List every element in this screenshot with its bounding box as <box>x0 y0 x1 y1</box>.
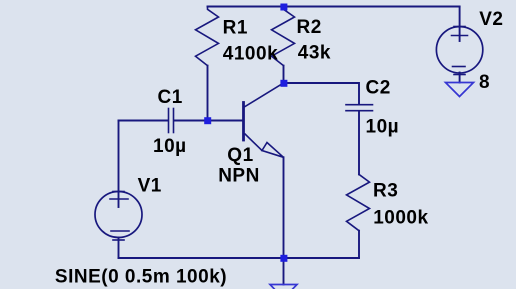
svg-text:V2: V2 <box>479 9 503 30</box>
wire base node right <box>175 120 243 122</box>
resistor R1 <box>196 7 219 66</box>
svg-text:1000k: 1000k <box>373 207 428 228</box>
svg-text:C2: C2 <box>366 78 391 99</box>
voltage source V1 <box>95 192 142 238</box>
svg-text:SINE(0 0.5m 100k): SINE(0 0.5m 100k) <box>55 266 227 287</box>
wire R1 bottom lead <box>207 66 209 121</box>
voltage source V2 <box>436 27 482 73</box>
node junction emitter/ground <box>280 255 287 262</box>
wire emitter down <box>283 157 285 258</box>
node junction collector <box>280 80 287 87</box>
transistor Q1 <box>242 103 245 141</box>
svg-text:NPN: NPN <box>218 165 260 186</box>
capacitor C1 <box>168 109 170 133</box>
svg-text:43k: 43k <box>298 42 331 63</box>
svg-text:Q1: Q1 <box>227 145 253 166</box>
svg-text:R2: R2 <box>297 17 322 38</box>
wire collector to C2 <box>284 83 360 104</box>
svg-text:10µ: 10µ <box>153 136 187 157</box>
ground at V2 <box>446 83 474 97</box>
wire ground stub <box>283 258 285 285</box>
wire C2 to R3 <box>358 112 360 175</box>
svg-text:C1: C1 <box>158 87 183 108</box>
wire bottom rail <box>119 257 360 259</box>
wire R2 bottom lead <box>283 66 285 83</box>
svg-text:10µ: 10µ <box>366 117 400 138</box>
node junction top rail / R2 <box>280 4 287 11</box>
resistor R2 <box>272 7 295 66</box>
resistor R3 <box>347 174 370 230</box>
wire base node left <box>119 120 168 122</box>
capacitor C2 <box>346 104 373 106</box>
wire top rail <box>208 6 460 8</box>
wire R3 bottom lead <box>358 231 360 258</box>
svg-text:8: 8 <box>479 72 490 93</box>
svg-text:4100k: 4100k <box>223 44 278 65</box>
svg-text:R3: R3 <box>373 180 398 201</box>
svg-text:V1: V1 <box>138 175 162 196</box>
svg-text:R1: R1 <box>223 18 248 39</box>
ground at bottom <box>270 285 297 289</box>
node junction base <box>204 117 211 124</box>
